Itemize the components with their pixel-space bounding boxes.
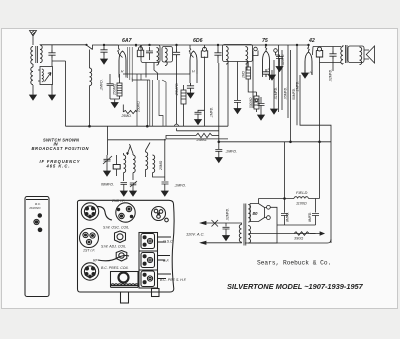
IF2 bottom leads <box>228 62 247 99</box>
svg-text:FIELD: FIELD <box>296 190 307 195</box>
OT core <box>346 45 348 63</box>
grid cap 42 <box>316 47 322 57</box>
antenna transformer T1 secondary <box>40 45 42 63</box>
wire C1 bottom to tuning box <box>51 58 53 66</box>
svg-text:S.W. OSC. COIL: S.W. OSC. COIL <box>103 226 129 230</box>
cap C5 <box>214 50 221 58</box>
svg-text:SILVERTONE MODEL ~1907-1939-19: SILVERTONE MODEL ~1907-1939-1957 <box>227 282 364 291</box>
svg-text:PHONO: PHONO <box>30 206 42 210</box>
ground cathode <box>111 100 118 108</box>
wire box left coil join <box>38 70 40 81</box>
can bc <box>141 271 155 287</box>
svg-text:6D6: 6D6 <box>193 38 203 44</box>
main tuning cap <box>103 140 112 176</box>
cap gnd 1 <box>120 183 127 197</box>
svg-text:R.F.: R.F. <box>163 259 170 263</box>
80 plate lead right <box>270 207 277 225</box>
6A7 heater squiggle <box>118 45 123 58</box>
diode cap mid <box>258 97 265 120</box>
wire C1 top <box>51 45 53 50</box>
coupling unit 75 <box>253 47 258 108</box>
bypass cap on bus <box>215 142 222 163</box>
ground C2 <box>103 55 105 56</box>
switch wiper 2 <box>130 144 134 155</box>
horizontal bus upper-middle <box>66 125 229 127</box>
can rf <box>141 253 155 268</box>
trimmer gnd 2 <box>130 181 137 196</box>
ground 6D6 <box>187 90 194 98</box>
wire socket1 to 2nd IF <box>97 206 113 220</box>
svg-text:BROADCAST POSITION: BROADCAST POSITION <box>32 146 90 151</box>
svg-text:25MΩ.: 25MΩ. <box>196 138 208 142</box>
svg-text:.1MFD.: .1MFD. <box>100 79 104 91</box>
BC pres coil assembly <box>111 272 139 304</box>
tube 6D6 <box>190 51 197 74</box>
42 leads <box>305 45 312 75</box>
volume control resistor <box>254 92 259 112</box>
rail B <box>177 130 219 132</box>
socket audio <box>81 263 98 280</box>
svg-text:1100Ω: 1100Ω <box>296 202 307 206</box>
diode caps 75 <box>262 69 269 77</box>
bias resistor 25M <box>123 105 137 114</box>
tube 42 <box>305 52 312 75</box>
IF coupling can 2 <box>162 47 173 66</box>
svg-text:B.C. PRES. COIL: B.C. PRES. COIL <box>101 266 128 270</box>
svg-text:1ST I.F.: 1ST I.F. <box>83 249 95 253</box>
can osc <box>141 234 155 249</box>
6D6 cathode <box>190 74 197 83</box>
IF transformer 2 can <box>223 45 253 65</box>
triple grid wires <box>127 47 132 82</box>
svg-text:250MΩ: 250MΩ <box>137 101 141 113</box>
T1 core <box>36 46 38 63</box>
ground after plate cap <box>276 64 283 72</box>
padder cap C1 <box>48 50 55 58</box>
wires OT to speaker <box>343 45 369 64</box>
AVC cap right <box>161 139 168 196</box>
AVC cap mid <box>234 62 241 114</box>
heater rail <box>123 73 190 75</box>
padder resistor small <box>113 155 120 176</box>
svg-text:390Ω: 390Ω <box>294 237 303 241</box>
core <box>244 204 246 246</box>
wire L3 bottom down <box>89 86 91 126</box>
speaker field resistor <box>294 232 324 241</box>
OT secondary can <box>348 46 364 65</box>
ground 42 cathode <box>302 70 309 78</box>
IF can 1 bottom leads <box>146 63 158 81</box>
hex badge SW osc <box>115 231 126 243</box>
grid cap 2 lead down <box>204 57 206 127</box>
2nd IF socket <box>116 203 135 222</box>
switch wiper 1 <box>128 146 131 156</box>
wire C2 right to tube <box>104 44 118 46</box>
wire 42 plate to OT <box>313 47 342 56</box>
svg-text:.01MFD.: .01MFD. <box>274 87 278 100</box>
svg-text:H: H <box>192 70 195 74</box>
wire RF to badge <box>98 256 129 261</box>
grid resistor 250M <box>117 74 122 99</box>
switch wiper 3 <box>146 143 151 151</box>
staircase wires from IF cans down <box>132 74 166 126</box>
transformer bottom to rail <box>248 225 277 243</box>
wire antenna coil bottom <box>32 64 34 67</box>
svg-text:.1MFD.: .1MFD. <box>225 150 237 154</box>
tuning box with trimmer <box>40 67 53 93</box>
tube 6A7 <box>119 51 126 74</box>
antenna <box>30 31 37 46</box>
small hole <box>165 218 169 222</box>
svg-text:8MFD.: 8MFD. <box>286 212 290 222</box>
fuse X <box>212 220 219 227</box>
coil bank 3 <box>146 151 148 178</box>
svg-text:.1MFD.: .1MFD. <box>174 184 186 188</box>
svg-text:SWITCH SHOWN: SWITCH SHOWN <box>43 137 80 142</box>
svg-text:465 K.C.: 465 K.C. <box>46 164 70 169</box>
tube 75 <box>263 51 270 74</box>
HT lead top <box>259 199 285 204</box>
wire T1 secondary top to bus <box>40 44 86 46</box>
wire L2 to ground <box>32 85 34 92</box>
bottom rail to B+ riser <box>245 239 331 243</box>
6A7 cathode wires <box>119 74 126 78</box>
B+ bus horizontal <box>219 141 331 143</box>
HT bottom rail <box>249 233 316 235</box>
socket osc <box>80 229 99 248</box>
svg-text:8MFD.: 8MFD. <box>308 212 312 222</box>
AVC cap C2 <box>100 47 107 55</box>
resistor vertical right <box>181 85 186 126</box>
ground tuning <box>49 92 56 100</box>
output transformer primary <box>341 47 343 65</box>
bus corner up right <box>227 98 229 126</box>
diode load resistor 2M <box>246 62 257 93</box>
FIELD coil <box>285 190 320 206</box>
cathode bypass cap 6A7 <box>107 74 120 99</box>
filter cap right <box>308 199 319 226</box>
svg-text:.02MFD.: .02MFD. <box>226 208 230 221</box>
bus junction dots <box>176 44 178 46</box>
AC input lines <box>186 220 236 244</box>
svg-text:250MΩ: 250MΩ <box>113 84 117 96</box>
rectifier 80 <box>250 204 270 222</box>
IF transformer 1 can <box>141 45 160 65</box>
AGC cap on 6D6 grid line <box>195 110 205 124</box>
svg-text:.1MFD.: .1MFD. <box>210 107 214 118</box>
svg-text:Sears, Roebuck & Co.: Sears, Roebuck & Co. <box>257 260 331 267</box>
6D6 cathode cap <box>187 83 194 91</box>
svg-text:O.S.C.: O.S.C. <box>163 240 174 244</box>
75 grid cap circle <box>274 49 283 64</box>
filter cap left <box>281 199 290 226</box>
svg-text:80: 80 <box>253 211 258 216</box>
ground arrow mid <box>271 106 278 114</box>
left branch vertical <box>52 61 66 126</box>
75 leads <box>263 45 270 80</box>
svg-text:2ND I.F.: 2ND I.F. <box>111 199 125 203</box>
svg-text:42: 42 <box>308 38 315 44</box>
socket 1st det <box>81 203 98 220</box>
cap C5 lead down <box>218 63 220 142</box>
small mounting tab <box>152 289 160 297</box>
hex badge SW adj <box>116 251 127 262</box>
RF coil L3 <box>89 50 91 69</box>
svg-text:H: H <box>121 70 124 74</box>
HV secondary bottom <box>248 226 250 244</box>
svg-text:6A7: 6A7 <box>122 38 133 44</box>
svg-text:B.C. PRE S. H.F.: B.C. PRE S. H.F. <box>160 278 187 282</box>
svg-text:110V. A.C.: 110V. A.C. <box>186 232 205 237</box>
svg-text:25MΩ: 25MΩ <box>159 160 163 171</box>
svg-text:75: 75 <box>262 38 268 44</box>
coil bank 1 <box>124 153 126 181</box>
switch section top rail <box>108 126 229 140</box>
resistor 25M horizontal <box>166 133 219 139</box>
right trimmer stack box <box>139 233 158 289</box>
svg-text:.05MFD.: .05MFD. <box>284 87 288 100</box>
svg-text:500MΩ: 500MΩ <box>249 97 253 108</box>
risers from B+ bus <box>284 142 286 199</box>
6D6 heater squiggle <box>189 45 193 58</box>
svg-text:.1MFD.: .1MFD. <box>296 81 300 92</box>
primary <box>239 225 241 243</box>
svg-text:S.W. ADJ. COIL: S.W. ADJ. COIL <box>101 245 126 249</box>
leader lines right <box>158 237 172 242</box>
svg-text:.02MFD.: .02MFD. <box>329 69 333 82</box>
power transformer <box>236 204 251 246</box>
filter bottom rail <box>277 224 316 226</box>
coil bank 4 <box>153 155 165 177</box>
grid cap 6D6 <box>201 47 207 57</box>
long vertical leads with labels right of 75 <box>273 60 275 106</box>
top right socket <box>152 207 166 221</box>
notes text block <box>32 137 90 168</box>
coil bank 2 <box>133 155 135 180</box>
grid cap 6A7 <box>137 47 143 57</box>
HV secondary top <box>248 205 250 223</box>
wire 42 to OT bottom <box>320 62 342 64</box>
top bus segment mid <box>101 44 309 46</box>
coupling cap C4 <box>173 50 180 58</box>
svg-text:.25MFD: .25MFD <box>175 83 179 96</box>
chassis: phono unit <box>25 197 49 297</box>
tone cap <box>329 51 336 59</box>
svg-text:25MΩ.: 25MΩ. <box>121 114 132 118</box>
speaker <box>366 46 374 63</box>
chassis main box <box>77 200 174 292</box>
svg-text:2MΩ: 2MΩ <box>242 71 246 79</box>
antenna transformer T1 primary <box>31 47 33 65</box>
ground ant <box>30 92 37 100</box>
ground 75 <box>271 70 273 72</box>
oscillator coil L2 <box>31 67 33 85</box>
svg-text:08MFD.: 08MFD. <box>101 183 114 187</box>
line bypass cap <box>223 208 230 241</box>
band switch S1 <box>86 45 101 50</box>
